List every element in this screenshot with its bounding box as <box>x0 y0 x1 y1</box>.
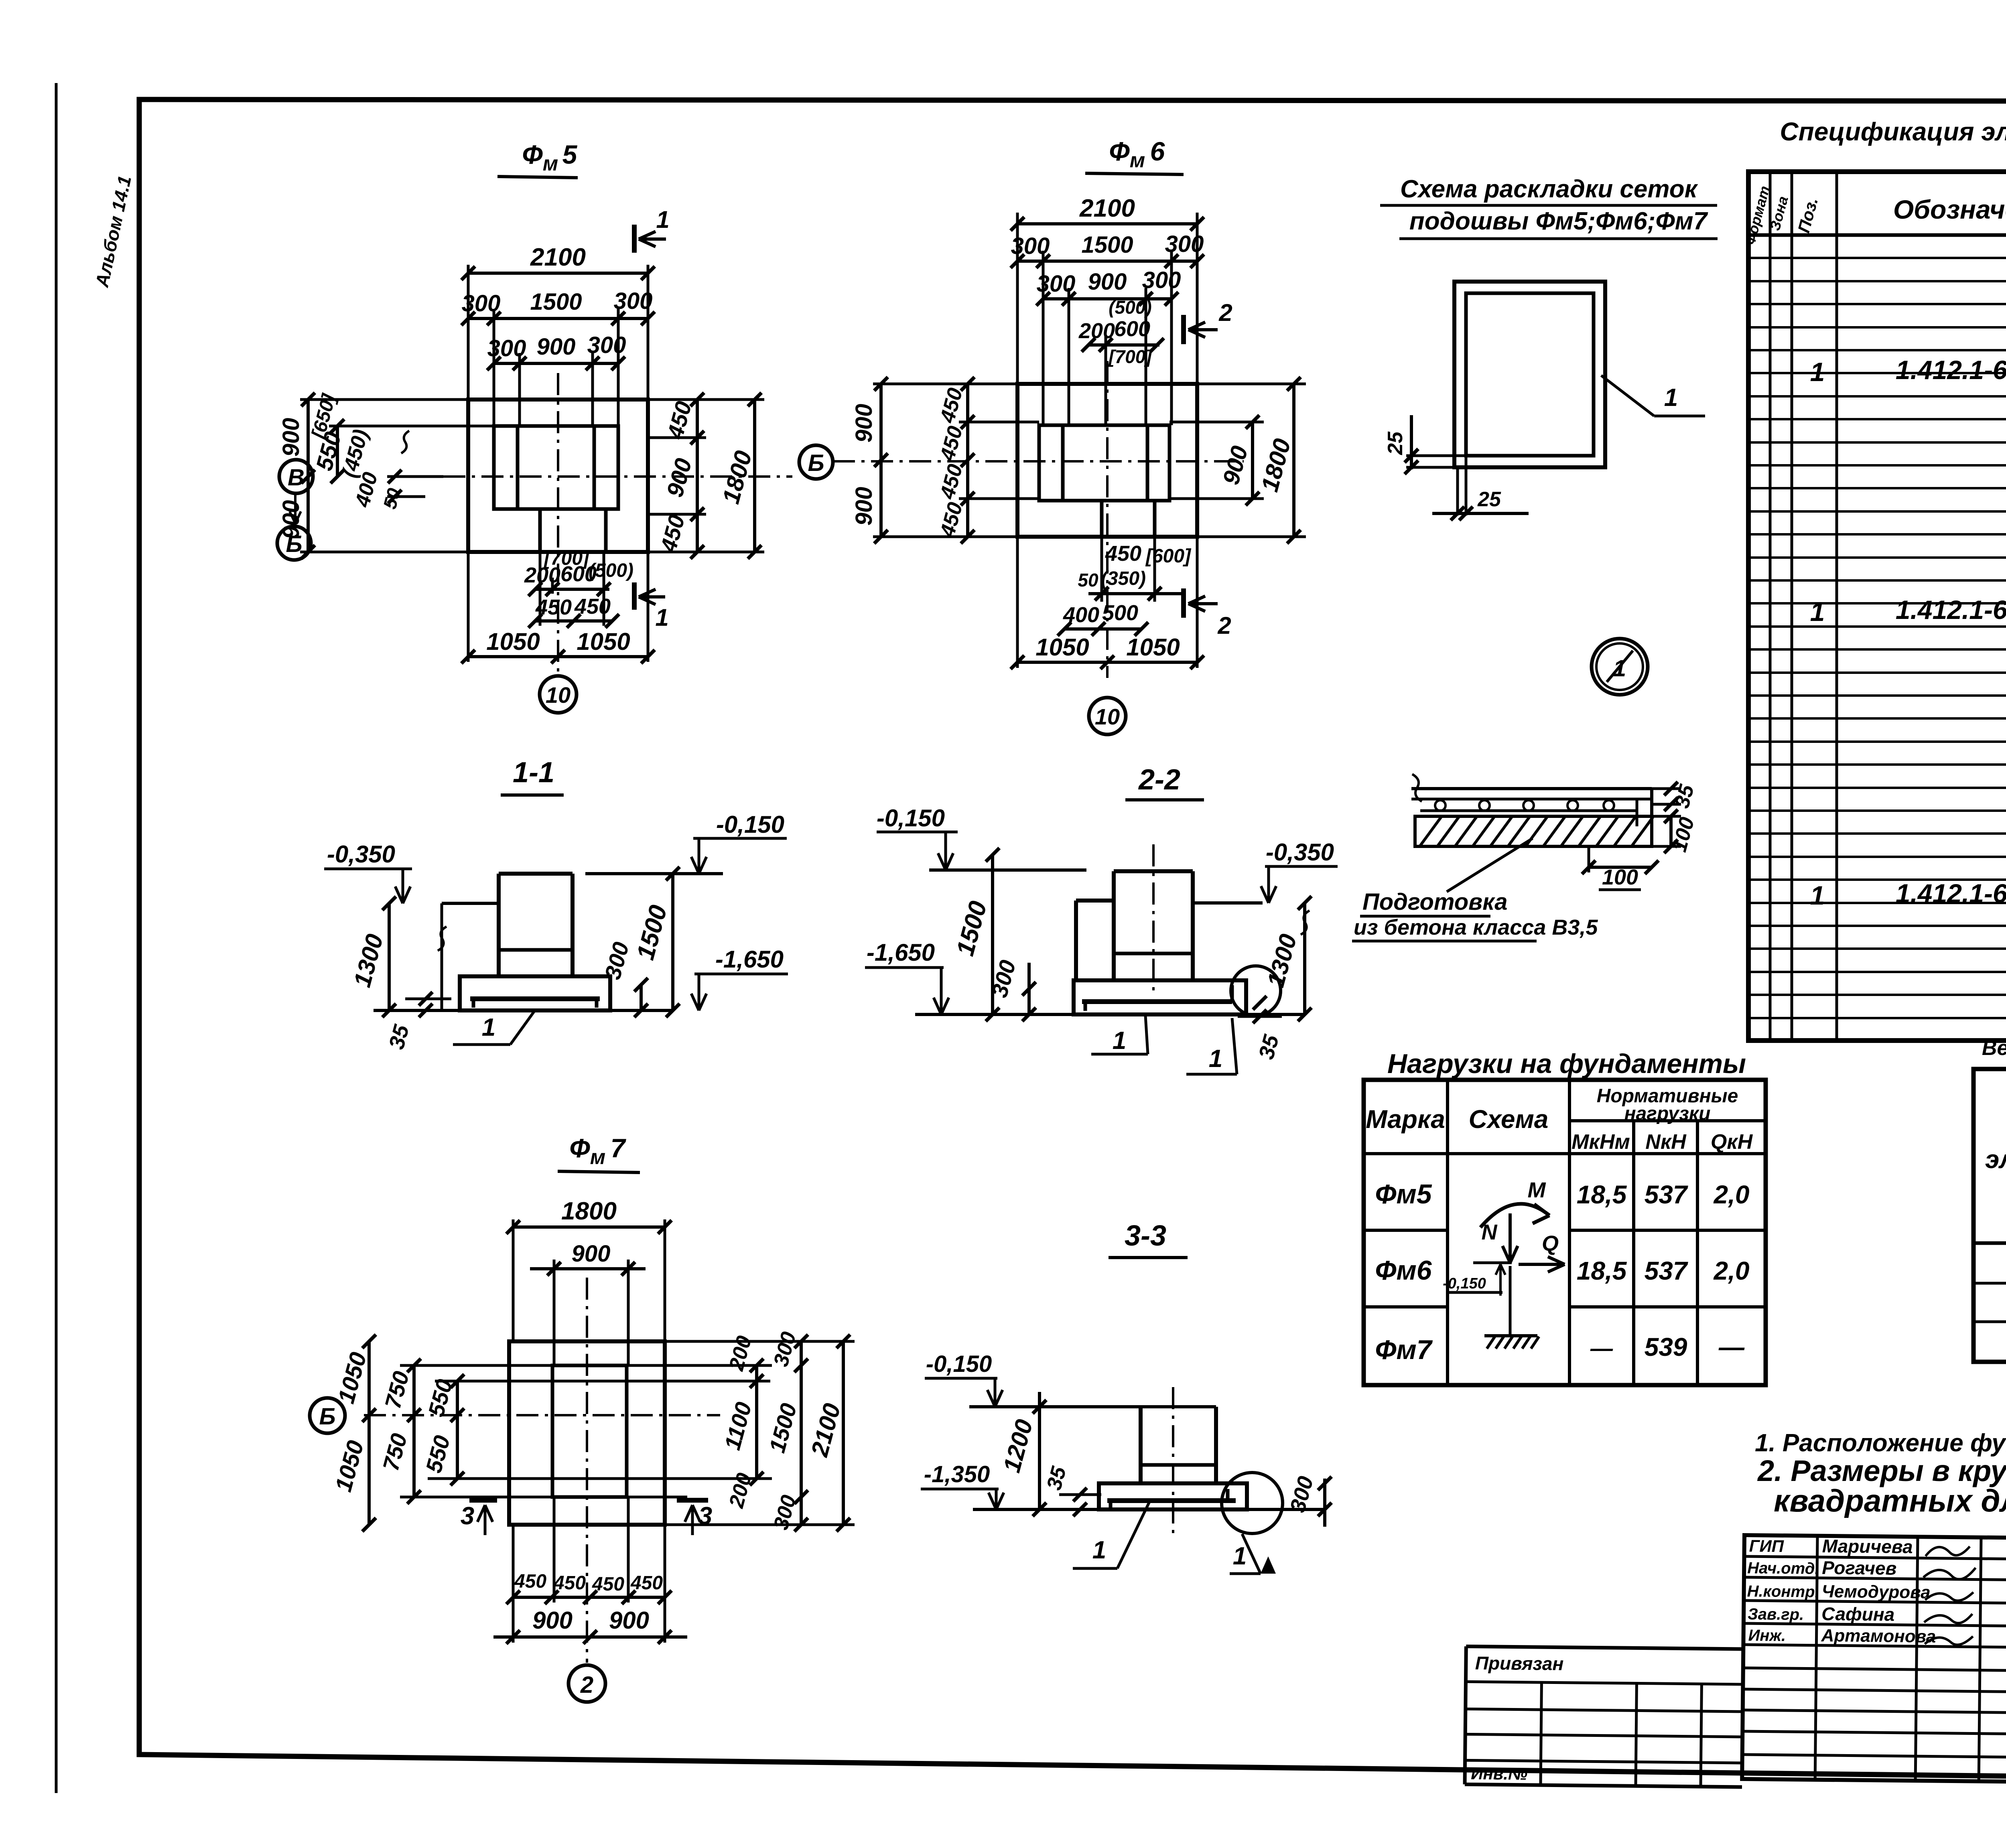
section 3-3 mesh plate <box>1107 1498 1236 1503</box>
axis circle B of Fm7 <box>310 1398 345 1433</box>
svg-text:-0,150: -0,150 <box>926 1351 992 1377</box>
dim 450-450 bottom Fm5 <box>535 619 612 623</box>
section mark 2 top <box>1181 315 1186 344</box>
dim 300-1500-300 Fm5 <box>468 317 648 320</box>
section 2-2 top level line left <box>929 868 1086 872</box>
svg-text:400: 400 <box>1063 603 1099 627</box>
svg-text:100: 100 <box>1602 865 1638 889</box>
dim 35 section 2-2 <box>1253 996 1267 1010</box>
dim 1500 section 1-1 <box>671 874 674 1010</box>
svg-text:Ф: Ф <box>1109 136 1130 166</box>
section 1-1 bottom level line <box>374 1009 673 1012</box>
svg-text:539: 539 <box>1645 1333 1687 1361</box>
dim 900-900 bottom Fm7 <box>493 1635 687 1639</box>
plan Fm7 centerline vertical <box>586 1278 588 1663</box>
svg-text:2100: 2100 <box>530 243 586 271</box>
detail slab top lines <box>1411 787 1652 790</box>
dim 1800 top Fm7 <box>513 1225 665 1229</box>
svg-text:подошвы Фм5;Фм6;Фм7: подошвы Фм5;Фм6;Фм7 <box>1409 207 1708 235</box>
dim 25 left of mesh plate <box>1406 454 1466 457</box>
mesh plate outline outer <box>1454 282 1605 467</box>
svg-text:900: 900 <box>278 418 304 457</box>
svg-text:1500: 1500 <box>530 289 582 315</box>
dim 1300 section 2-2 <box>1303 903 1306 1014</box>
dim 900-900 left Fm5 <box>307 400 310 552</box>
plan Fm6 centerline vertical <box>1106 361 1109 678</box>
loads schema ground hatch <box>1484 1334 1537 1337</box>
plan Fm5 outer outline <box>468 400 648 552</box>
svg-text:Марка: Марка <box>1366 1105 1445 1134</box>
dim 1800 right Fm5 <box>753 400 756 552</box>
svg-text:Ведомость расхода стали на эле: Ведомость расхода стали на элемент, кг <box>1982 1037 2006 1060</box>
plan Fm6 pedestal outline <box>1039 425 1169 501</box>
svg-text:2: 2 <box>1218 299 1232 326</box>
svg-text:1: 1 <box>1810 357 1825 387</box>
svg-text:Инж.: Инж. <box>1748 1627 1786 1645</box>
svg-text:Нагрузки на фундаменты: Нагрузки на фундаменты <box>1387 1049 1746 1079</box>
section 3-3 centerline <box>1172 1387 1174 1535</box>
dim 1200 section 3-3 <box>1038 1392 1041 1509</box>
steel table outline <box>1974 1069 2006 1362</box>
svg-text:—: — <box>1718 1333 1745 1361</box>
svg-text:Фм7: Фм7 <box>1375 1335 1433 1365</box>
svg-text:600: 600 <box>560 562 597 586</box>
svg-text:1: 1 <box>1092 1536 1106 1564</box>
plan Fm7 extensions bottom <box>512 1525 515 1643</box>
svg-text:2,0: 2,0 <box>1714 1256 1750 1285</box>
section 1-1 top level line right <box>585 872 723 875</box>
svg-text:-0,150: -0,150 <box>716 811 784 838</box>
plan Fm7 outer outline <box>509 1341 665 1525</box>
svg-text:300: 300 <box>1142 267 1181 293</box>
specification table column lines <box>1769 172 1772 1041</box>
dim 550(450) labels Fm5 <box>336 426 339 477</box>
section 2-2 footing outline <box>1074 980 1246 1014</box>
svg-text:18,5: 18,5 <box>1577 1180 1627 1209</box>
svg-text:-0,150: -0,150 <box>877 805 945 832</box>
dim 200-600 bottom Fm5 <box>539 552 542 626</box>
svg-text:3: 3 <box>461 1502 474 1530</box>
plan Fm5 left extension lines <box>443 398 468 401</box>
dim 300 section 2-2 <box>1027 963 1031 1014</box>
section 1-1 footing outline <box>460 976 610 1010</box>
plan Fm6 column imprint lines <box>1061 425 1065 501</box>
svg-text:1.412.1-6, в.2: 1.412.1-6, в.2 <box>1896 878 2006 908</box>
dim 35 section 3-3 <box>1073 1488 1087 1501</box>
svg-text:2: 2 <box>580 1672 593 1698</box>
svg-text:450: 450 <box>1105 542 1141 566</box>
dim 1050-1050 bottom Fm6 <box>1016 537 1019 668</box>
section 1-1 column outline <box>499 872 573 876</box>
svg-text:900: 900 <box>532 1607 573 1634</box>
svg-text:2-2: 2-2 <box>1138 764 1180 796</box>
svg-text:[700]: [700] <box>1108 346 1152 367</box>
section 2-2 column outline <box>1114 869 1193 873</box>
dim 900 right Fm6 <box>1251 422 1254 499</box>
svg-text:В: В <box>288 465 305 491</box>
svg-text:Сафина: Сафина <box>1821 1603 1895 1625</box>
svg-text:6: 6 <box>1150 136 1165 166</box>
svg-text:2: 2 <box>1217 612 1231 639</box>
svg-text:Б: Б <box>808 450 824 476</box>
detail hatched prep strip <box>1415 816 1652 846</box>
svg-text:600: 600 <box>1114 317 1150 341</box>
loads table grid <box>1446 1080 1449 1385</box>
dim 300-900-300 Fm5 <box>494 362 618 365</box>
svg-text:МкНм: МкНм <box>1572 1130 1630 1154</box>
svg-text:3-3: 3-3 <box>1125 1220 1166 1252</box>
svg-text:1: 1 <box>1810 597 1825 627</box>
mesh plate outline inner <box>1466 293 1594 456</box>
section 3-3 detail circle <box>1222 1473 1283 1534</box>
leader 1a section 3-3 <box>1117 1502 1149 1568</box>
svg-text:900: 900 <box>572 1241 611 1267</box>
svg-text:Спецификация элементов монолит: Спецификация элементов монолитной констр… <box>1780 117 2006 146</box>
dim 450-900-450 right Fm5 <box>696 400 699 552</box>
svg-text:200: 200 <box>1078 319 1115 343</box>
dim 400-500 bottom Fm6 <box>1064 627 1141 631</box>
axis circle 10 of Fm5 <box>540 676 577 713</box>
svg-text:300: 300 <box>614 288 653 314</box>
section mark 3 right <box>677 1498 708 1503</box>
svg-text:450: 450 <box>553 1572 586 1594</box>
dim 300 section 3-3 <box>1323 1479 1326 1527</box>
svg-text:[600]: [600] <box>1145 546 1192 567</box>
loads table outline <box>1364 1080 1766 1385</box>
dim 1800 right Fm6 <box>1292 384 1295 537</box>
svg-text:—: — <box>1590 1335 1613 1361</box>
svg-text:Маричева: Маричева <box>1822 1536 1913 1557</box>
svg-text:Б: Б <box>286 531 302 557</box>
detail right edge <box>1650 789 1653 846</box>
axis circle B left of Fm5 <box>277 526 311 560</box>
squiggle break Fm5 left <box>401 431 409 453</box>
svg-text:300: 300 <box>1037 271 1076 297</box>
dim 300-900-300 Fm6 <box>1043 297 1172 300</box>
title block signatures <box>1926 1546 1970 1556</box>
dim 100 detail bottom <box>1588 846 1590 872</box>
dim 750-750 left Fm7 <box>412 1365 416 1497</box>
svg-text:300: 300 <box>1011 233 1050 259</box>
svg-text:1.412.1-6, в.2: 1.412.1-6, в.2 <box>1896 595 2006 625</box>
svg-text:Схема: Схема <box>1469 1105 1549 1134</box>
plan Fm5 pedestal outline <box>494 426 618 509</box>
leader 1a section 2-2 <box>1145 1016 1148 1054</box>
svg-text:Б: Б <box>319 1404 335 1430</box>
specification table outline <box>1748 172 2006 1041</box>
plan Fm7 centerline horizontal <box>364 1414 720 1416</box>
svg-text:1800: 1800 <box>561 1197 617 1225</box>
dim 1050-1050 bottom Fm5 <box>467 552 470 662</box>
svg-text:Обозначение: Обозначение <box>1893 195 2006 224</box>
section 2-2 wall block <box>1076 899 1114 903</box>
section 2-2 detail circle <box>1231 966 1281 1016</box>
svg-text:1: 1 <box>1209 1045 1222 1073</box>
svg-text:Рогачев: Рогачев <box>1822 1557 1897 1579</box>
svg-text:Артамонова: Артамонова <box>1821 1626 1936 1647</box>
svg-text:50: 50 <box>1078 570 1098 590</box>
section 3-3 footing outline <box>1099 1483 1247 1509</box>
axis circle 2 of Fm7 <box>569 1665 605 1702</box>
plan Fm6 centerline horizontal <box>833 460 1244 463</box>
svg-text:N: N <box>1482 1220 1498 1244</box>
dim 2100 top Fm5 <box>468 272 648 275</box>
dim 450x4 left Fm6 <box>966 384 969 537</box>
svg-text:1-1: 1-1 <box>513 757 554 789</box>
dim 550-550 left Fm7 <box>456 1381 459 1479</box>
svg-text:10: 10 <box>546 682 571 708</box>
section mark 1 bottom <box>632 582 637 610</box>
svg-text:Подготовка: Подготовка <box>1362 889 1508 915</box>
section 1-1 mesh plate <box>470 996 600 1001</box>
svg-text:300: 300 <box>587 332 626 358</box>
plan Fm6 extension lines top <box>1016 213 1019 384</box>
section 3-3 bottom level line <box>973 1508 1099 1511</box>
dim 25 bottom of mesh plate <box>1456 469 1459 515</box>
dim 35 detail <box>1652 787 1681 790</box>
svg-text:Привязан: Привязан <box>1475 1653 1564 1674</box>
plan Fm5 centerline vertical <box>557 373 559 675</box>
svg-text:Зав.гр.: Зав.гр. <box>1748 1605 1804 1623</box>
svg-text:2100: 2100 <box>1079 195 1135 222</box>
svg-text:Схема раскладки сеток: Схема раскладки сеток <box>1400 175 1698 203</box>
svg-text:Инв.№: Инв.№ <box>1471 1764 1527 1783</box>
svg-text:5: 5 <box>562 140 578 169</box>
svg-text:450: 450 <box>535 595 572 619</box>
mesh leader 1 <box>1601 375 1654 416</box>
svg-text:элемента: элемента <box>1985 1145 2006 1174</box>
svg-text:1: 1 <box>656 206 669 233</box>
plan Fm6 right extensions <box>1197 383 1306 385</box>
svg-text:-0,350: -0,350 <box>327 841 395 868</box>
svg-text:10: 10 <box>1095 704 1120 729</box>
dim 300 section 1-1 <box>640 985 643 1010</box>
svg-text:из бетона класса В3,5: из бетона класса В3,5 <box>1354 915 1598 939</box>
section mark 2 bottom <box>1181 588 1186 618</box>
svg-text:200: 200 <box>524 563 560 587</box>
svg-text:Чемодурова: Чемодурова <box>1821 1582 1930 1603</box>
plan Fm7 inner horizontals <box>400 1364 772 1367</box>
svg-text:2. Размеры в круглых скобках д: 2. Размеры в круглых скобках для tн=-20°… <box>1757 1454 2006 1487</box>
dim 900-900 left Fm6 <box>879 384 883 537</box>
leader 1 section 1-1 <box>510 1012 534 1045</box>
svg-text:Ф: Ф <box>569 1133 590 1163</box>
svg-text:1: 1 <box>655 604 668 631</box>
svg-text:Фм6: Фм6 <box>1375 1255 1432 1286</box>
svg-text:-1,650: -1,650 <box>867 939 935 966</box>
svg-text:M: M <box>1528 1178 1546 1202</box>
svg-text:1: 1 <box>1810 880 1825 910</box>
plan Fm7 extensions top <box>512 1219 515 1341</box>
plan Fm7 pedestal outline <box>552 1365 627 1497</box>
dim 900 top Fm7 <box>530 1267 646 1270</box>
axis circle 10 of Fm6 <box>1089 698 1126 734</box>
svg-text:300: 300 <box>1165 231 1204 257</box>
svg-text:1: 1 <box>1664 384 1678 412</box>
dim 300-200 right Fm7 extensions <box>665 1340 855 1343</box>
dim 1500 section 2-2 <box>991 855 994 1014</box>
section 2-2 mesh plate <box>1082 999 1232 1004</box>
dim 2100 right Fm7 <box>842 1341 845 1525</box>
svg-text:7: 7 <box>611 1133 627 1163</box>
plan Fm5 right extension lines <box>648 398 764 401</box>
svg-text:450: 450 <box>592 1574 624 1595</box>
svg-text:Q: Q <box>1542 1231 1559 1256</box>
svg-text:537: 537 <box>1645 1256 1689 1285</box>
dim 200-1100-200 right Fm7 <box>755 1365 758 1479</box>
svg-text:квадратных для tн=-40°С.: квадратных для tн=-40°С. <box>1774 1483 2006 1518</box>
dim 450x4 bottom Fm7 <box>513 1596 665 1599</box>
plan Fm6 outer outline <box>1017 384 1197 537</box>
svg-text:-1,650: -1,650 <box>715 946 784 973</box>
svg-text:1: 1 <box>1113 1027 1126 1055</box>
leader 1b section 2-2 <box>1232 1018 1237 1074</box>
svg-text:1050: 1050 <box>1126 634 1180 661</box>
sheet edge line left <box>55 83 58 1793</box>
section 2-2 ground line right <box>1193 901 1263 905</box>
svg-text:м: м <box>590 1146 605 1169</box>
section 2-2 centerline <box>1152 844 1155 991</box>
svg-text:450: 450 <box>574 594 611 619</box>
detail mesh bars <box>1435 800 1446 811</box>
svg-text:500: 500 <box>1102 601 1138 625</box>
section 2-2 bottom level line <box>915 1013 1074 1016</box>
svg-text:Ф: Ф <box>522 140 543 169</box>
dim bottom small Fm6 <box>1100 536 1103 602</box>
section 1-1 ground line left <box>442 902 499 905</box>
svg-text:нагрузки: нагрузки <box>1624 1103 1711 1124</box>
svg-text:Нач.отд.: Нач.отд. <box>1747 1559 1819 1578</box>
squiggle break section 1-1 <box>441 903 443 1010</box>
section mark 1 top <box>632 225 637 253</box>
plan Fm5 centerline horizontal <box>443 475 792 478</box>
svg-text:1: 1 <box>1233 1542 1247 1570</box>
axis circle V left of Fm5 <box>279 460 313 493</box>
svg-text:900: 900 <box>1088 269 1127 295</box>
svg-text:ГИП: ГИП <box>1749 1536 1784 1556</box>
arrow between axis circles <box>294 493 296 523</box>
dim 200-600 top Fm6 <box>1088 343 1159 347</box>
svg-text:2,0: 2,0 <box>1714 1180 1750 1209</box>
svg-text:Фм5: Фм5 <box>1375 1179 1432 1209</box>
svg-text:м: м <box>1130 149 1145 172</box>
svg-text:1.412.1-6, в.2: 1.412.1-6, в.2 <box>1896 355 2006 385</box>
svg-text:900: 900 <box>609 1607 649 1634</box>
svg-text:3: 3 <box>698 1502 712 1530</box>
svg-text:1050: 1050 <box>1035 634 1089 661</box>
section 3-3 column outline <box>1139 1407 1143 1483</box>
dim 100 detail right <box>1652 815 1681 818</box>
axis circle B shared <box>799 445 833 479</box>
specification table row lines <box>1748 233 2006 237</box>
svg-text:-0,150: -0,150 <box>1443 1275 1486 1292</box>
svg-text:1: 1 <box>482 1014 495 1041</box>
detail circle 1 marker <box>1592 639 1648 695</box>
dim 300-1500-300 Fm6 <box>1017 260 1197 263</box>
svg-text:1050: 1050 <box>577 628 630 655</box>
dim 2100 top Fm6 <box>1017 222 1197 225</box>
svg-text:м: м <box>543 152 558 175</box>
svg-text:1500: 1500 <box>1081 232 1133 258</box>
svg-text:QкН: QкН <box>1711 1130 1753 1154</box>
svg-text:Н.контр.: Н.контр. <box>1747 1582 1819 1601</box>
dim 1300 section 1-1 <box>388 903 391 1010</box>
svg-text:537: 537 <box>1645 1180 1689 1209</box>
svg-text:18,5: 18,5 <box>1577 1256 1627 1285</box>
leader 1b section 3-3 <box>1242 1534 1261 1574</box>
plan Fm6 left extensions <box>873 383 1017 385</box>
dim 35 section 1-1 <box>405 998 451 1000</box>
loads schema sketch <box>1480 1204 1549 1227</box>
svg-text:300: 300 <box>462 290 501 316</box>
svg-text:NкН: NкН <box>1645 1130 1687 1154</box>
svg-text:1050: 1050 <box>486 628 540 655</box>
svg-text:900: 900 <box>537 334 576 360</box>
section mark 3 left <box>469 1498 497 1503</box>
plan Fm5 extension lines top <box>467 265 470 400</box>
plan Fm5 column imprint lines <box>516 426 520 509</box>
svg-text:-1,350: -1,350 <box>924 1461 990 1487</box>
prep leader line <box>1447 838 1533 892</box>
svg-text:(500): (500) <box>1109 297 1151 318</box>
dim 300-1500-300 right Fm7 <box>800 1341 803 1525</box>
section 3-3 ground line <box>969 1405 1216 1408</box>
svg-text:25: 25 <box>1384 431 1407 455</box>
svg-text:900: 900 <box>851 487 877 526</box>
dim 1050-1050 left Fm7 <box>367 1341 371 1525</box>
attachment table left <box>1466 1646 1743 1649</box>
svg-text:1. Расположение фундаментов см: 1. Расположение фундаментов смотри лист … <box>1755 1429 2006 1457</box>
svg-text:450: 450 <box>630 1572 663 1594</box>
svg-text:450: 450 <box>514 1571 546 1592</box>
svg-text:300: 300 <box>487 335 526 361</box>
svg-text:25: 25 <box>1477 488 1501 511</box>
title block role table <box>1742 1535 2006 1782</box>
svg-text:900: 900 <box>851 404 877 443</box>
svg-text:-0,350: -0,350 <box>1266 839 1334 866</box>
